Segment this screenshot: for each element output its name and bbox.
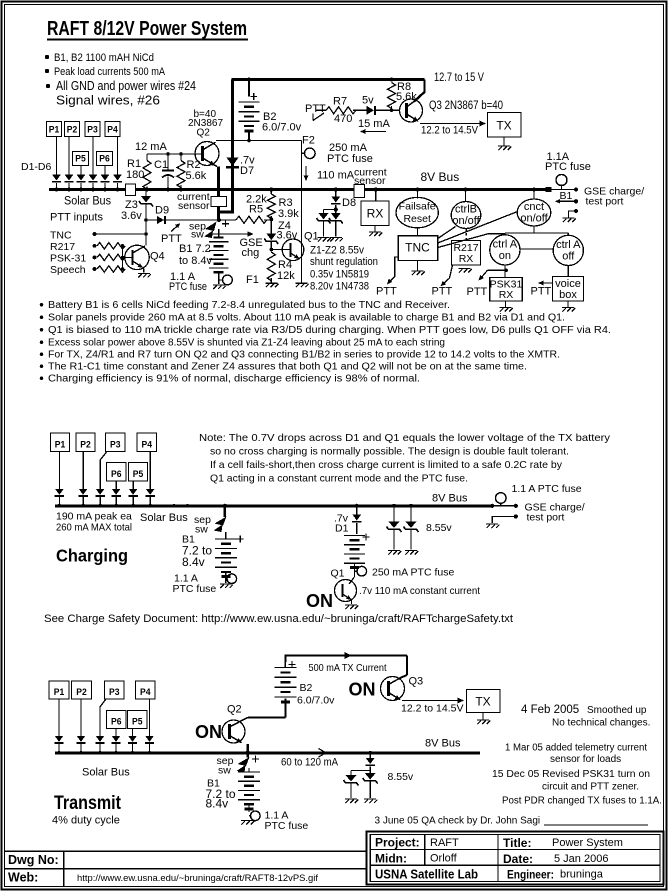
charging wire P4 bbox=[149, 452, 151, 489]
svg-text:Midn:: Midn: bbox=[375, 852, 407, 866]
circle ctrl A on bbox=[490, 235, 520, 265]
svg-text:P5: P5 bbox=[133, 469, 144, 480]
svg-text:Q3 2N3867 b=40: Q3 2N3867 b=40 bbox=[429, 100, 503, 112]
transmit battery B1 bbox=[248, 768, 250, 772]
wire from P3 bbox=[92, 137, 94, 175]
ground under TNC bbox=[417, 261, 419, 271]
ground under Q1 bbox=[296, 283, 309, 287]
svg-text:4% duty cycle: 4% duty cycle bbox=[52, 815, 120, 827]
svg-text:All GND and power wires #24: All GND and power wires #24 bbox=[56, 79, 196, 93]
svg-text:If a cell fails-short,then cro: If a cell fails-short,then cross charge … bbox=[210, 459, 563, 471]
svg-text:P5: P5 bbox=[75, 154, 86, 165]
transistor Q1 (top) bbox=[271, 249, 290, 251]
charging zener string left bbox=[392, 504, 396, 508]
transmit fuse 1.1A bbox=[249, 815, 251, 817]
label GSE chg arrow bbox=[212, 233, 251, 235]
svg-text:bruninga: bruninga bbox=[560, 869, 604, 881]
circle ctrl A off bbox=[553, 235, 583, 265]
svg-text:1.1 A PTC fuse: 1.1 A PTC fuse bbox=[512, 483, 582, 495]
svg-text:3.9k: 3.9k bbox=[278, 208, 299, 220]
transmit zener string left bbox=[351, 770, 370, 772]
ellipse Failsafe Reset bbox=[416, 188, 420, 192]
charging diode 5 bbox=[129, 489, 138, 495]
svg-text:P3: P3 bbox=[87, 125, 98, 136]
charging diode 1 bbox=[55, 489, 64, 495]
wire B2- to F2 bbox=[216, 140, 302, 142]
svg-text:D9: D9 bbox=[155, 205, 169, 217]
svg-text:on/off: on/off bbox=[452, 215, 480, 227]
ground under PSK31 RX bbox=[505, 301, 507, 307]
transistor Q4 bbox=[125, 245, 149, 269]
title block right table bbox=[367, 832, 664, 885]
wire Q3 emitter to TX bbox=[420, 123, 484, 125]
svg-text:The R1-C1 time constant and Ze: The R1-C1 time constant and Zener Z4 ass… bbox=[48, 362, 527, 373]
wire from P4 bbox=[117, 137, 119, 175]
svg-text:8.20v 1N4738: 8.20v 1N4738 bbox=[310, 281, 369, 293]
svg-text:TNC: TNC bbox=[405, 241, 430, 255]
ground under RX bbox=[374, 226, 376, 232]
svg-text:PTC fuse: PTC fuse bbox=[173, 583, 217, 595]
svg-text:D1-D6: D1-D6 bbox=[21, 161, 52, 173]
svg-text:Orloff: Orloff bbox=[430, 853, 458, 865]
transmit wire P3 dogleg bbox=[100, 699, 106, 736]
svg-text:Charging: Charging bbox=[56, 546, 128, 566]
svg-text:shunt regulation: shunt regulation bbox=[310, 256, 378, 268]
svg-text:PSK-31: PSK-31 bbox=[50, 253, 86, 265]
transistor Q2 bbox=[195, 142, 219, 166]
wire from P1 bbox=[56, 137, 58, 175]
charging connector P3 bbox=[106, 433, 126, 452]
svg-text:8V Bus: 8V Bus bbox=[432, 493, 468, 505]
svg-text:PTT inputs: PTT inputs bbox=[50, 212, 103, 224]
svg-text:http://www.ew.usna.edu/~brunin: http://www.ew.usna.edu/~bruninga/craft/R… bbox=[77, 873, 319, 883]
box RX bbox=[374, 188, 378, 192]
svg-text:to 8.4v: to 8.4v bbox=[179, 255, 213, 267]
box PSK31 RX bbox=[504, 265, 506, 278]
fan wire TNC to ctrlB bbox=[438, 227, 456, 239]
svg-text:For TX, Z4/R1 and R7 turn ON: For TX, Z4/R1 and R7 turn ON Q2 and Q3 c… bbox=[48, 350, 560, 361]
zener string Z1-Z2 left bbox=[334, 208, 338, 212]
zener Z3 bbox=[145, 191, 147, 196]
charging diode 4 bbox=[112, 489, 121, 495]
svg-text:R5: R5 bbox=[249, 204, 263, 216]
charging solar bus bbox=[55, 504, 493, 507]
svg-text:Engineer:: Engineer: bbox=[507, 868, 554, 882]
svg-text:test port: test port bbox=[586, 196, 624, 208]
resistor R3 bbox=[269, 188, 273, 192]
svg-text:Q1 acting in a constant curre: Q1 acting in a constant current mode and… bbox=[210, 473, 468, 485]
svg-text:chg: chg bbox=[242, 247, 260, 259]
ground under voice box bbox=[567, 301, 569, 307]
svg-text:Date:: Date: bbox=[503, 852, 533, 866]
connector P4 bbox=[105, 122, 120, 137]
svg-text:Note: The 0.7V drops across D: Note: The 0.7V drops across D1 and Q1 eq… bbox=[199, 432, 611, 444]
svg-text:Solar Bus: Solar Bus bbox=[64, 196, 111, 208]
transmit diode 3 bbox=[96, 736, 105, 742]
ground under charging Q1 bbox=[345, 605, 358, 609]
resistor R4 bbox=[269, 248, 273, 252]
svg-text:15 Dec 05 Revised PSK31 turn o: 15 Dec 05 Revised PSK31 turn on bbox=[492, 769, 650, 780]
svg-text:0.35v 1N5819: 0.35v 1N5819 bbox=[310, 269, 369, 281]
bus arrow chevron bbox=[319, 749, 327, 758]
resistor R7 bbox=[326, 107, 356, 114]
transmit connector P1 bbox=[49, 681, 69, 699]
fan wire TNC to ctrlA on bbox=[438, 234, 505, 248]
svg-text:ctrlB: ctrlB bbox=[455, 204, 477, 216]
svg-text:Transmit: Transmit bbox=[54, 793, 122, 814]
PTT arrow TNC bbox=[389, 257, 399, 283]
svg-text:6.0/7.0v: 6.0/7.0v bbox=[262, 122, 302, 134]
svg-text:B1: B1 bbox=[560, 190, 573, 202]
capacitor C1 bbox=[167, 154, 169, 170]
charging connector P4 bbox=[137, 433, 157, 452]
transmit wire P6 bbox=[115, 729, 117, 736]
wire cnct to ctrlA circles bbox=[533, 226, 535, 233]
diode D4 bbox=[113, 175, 122, 181]
wire node above R1 C1 R2 bbox=[147, 153, 203, 155]
connector P3 bbox=[85, 122, 100, 137]
charging battery B1 bbox=[225, 532, 227, 539]
zener Z4 bbox=[270, 219, 272, 233]
wire from P2 bbox=[68, 137, 70, 175]
svg-text:ON: ON bbox=[195, 722, 222, 742]
box TX (transmit) bbox=[467, 690, 501, 713]
svg-text:ctrl A: ctrl A bbox=[556, 239, 581, 251]
wire R7 to 5v diode bbox=[353, 109, 367, 111]
svg-text:F2: F2 bbox=[302, 135, 315, 147]
svg-text:test port: test port bbox=[527, 512, 565, 524]
svg-text:8V Bus: 8V Bus bbox=[421, 170, 460, 184]
transmit connector P5 bbox=[128, 711, 148, 729]
svg-text:Signal wires, #26: Signal wires, #26 bbox=[56, 94, 160, 108]
transmit connector P3 bbox=[105, 681, 125, 699]
transmit B2 top wire to Q3 bbox=[285, 656, 407, 663]
wire D7 to sensor node bbox=[219, 211, 234, 214]
svg-text:Q2: Q2 bbox=[197, 128, 211, 139]
charging fuse 1.1A bbox=[226, 578, 227, 580]
svg-text:Power System: Power System bbox=[552, 837, 623, 849]
svg-text:12 mA: 12 mA bbox=[135, 141, 167, 153]
svg-text:P5: P5 bbox=[132, 717, 143, 728]
svg-text:P4: P4 bbox=[142, 440, 153, 451]
svg-text:sw: sw bbox=[218, 765, 231, 777]
bullet note peak load bbox=[45, 69, 49, 73]
svg-text:4 Feb 2005: 4 Feb 2005 bbox=[521, 704, 579, 716]
connector P5 bbox=[73, 152, 89, 166]
svg-text:Q1: Q1 bbox=[304, 231, 319, 243]
svg-text:Solar panels provide 260 mA at: Solar panels provide 260 mA at 8.5 volts… bbox=[48, 313, 565, 324]
charging switch sep sw bbox=[223, 504, 227, 508]
svg-text:RAFT 8/12V Power System: RAFT 8/12V Power System bbox=[47, 18, 247, 40]
wire Q3 to TX (transmit) bbox=[402, 700, 462, 702]
charging wire P6 bbox=[115, 481, 117, 489]
svg-text:sensor for loads: sensor for loads bbox=[550, 754, 621, 765]
svg-text:Smoothed up: Smoothed up bbox=[587, 705, 647, 716]
svg-text:on: on bbox=[499, 250, 511, 262]
svg-text:P4: P4 bbox=[107, 125, 118, 136]
svg-text:No technical changes.: No technical changes. bbox=[552, 718, 650, 729]
transmit connector P2 bbox=[72, 681, 92, 699]
dashed wire ctrlB to R217 RX bbox=[465, 229, 467, 241]
svg-text:circuit and PTT zener.: circuit and PTT zener. bbox=[542, 782, 639, 793]
svg-text:Failsafe: Failsafe bbox=[399, 201, 436, 213]
svg-text:sensor: sensor bbox=[178, 200, 210, 212]
bus end square bbox=[546, 187, 552, 192]
svg-text:D1: D1 bbox=[335, 523, 349, 535]
svg-text:PTT: PTT bbox=[376, 286, 397, 298]
svg-text:P1: P1 bbox=[55, 440, 66, 451]
transmit diode 2 bbox=[77, 736, 86, 742]
svg-text:Dwg No:: Dwg No: bbox=[8, 853, 59, 867]
fan wire TNC to cnct bbox=[438, 212, 518, 244]
ground GSE test port bbox=[574, 209, 578, 213]
svg-text:sw: sw bbox=[195, 524, 208, 536]
svg-text:5 Jan 2006: 5 Jan 2006 bbox=[554, 853, 608, 865]
box TNC bbox=[398, 236, 438, 261]
charging diode D1 bbox=[355, 504, 359, 508]
node R3 Z4 R5 bbox=[269, 217, 273, 221]
transmit diode 6 bbox=[145, 736, 154, 742]
transmit diode 4 bbox=[112, 736, 121, 742]
svg-text:Z1-Z2 8.55v: Z1-Z2 8.55v bbox=[310, 245, 364, 257]
title block left table bbox=[5, 850, 367, 852]
svg-text:Q1: Q1 bbox=[331, 568, 345, 580]
PTT arrow PSK31 bbox=[488, 269, 507, 271]
svg-text:8.55v: 8.55v bbox=[426, 522, 452, 534]
svg-text:PTC fuse: PTC fuse bbox=[545, 161, 591, 173]
transmit connector P4 bbox=[136, 681, 156, 699]
svg-text:See Charge Safety Document:: See Charge Safety Document: http://www.e… bbox=[44, 613, 513, 625]
top 12V rail bbox=[231, 78, 424, 81]
ellipse ctrlB on/off bbox=[464, 188, 468, 192]
svg-text:PTC fuse: PTC fuse bbox=[169, 281, 207, 293]
svg-text:Web:: Web: bbox=[8, 871, 38, 885]
ground under Q4 bbox=[138, 274, 151, 278]
wire from P5 bbox=[80, 166, 82, 175]
svg-text:TX: TX bbox=[496, 119, 511, 133]
svg-text:Speech: Speech bbox=[50, 264, 86, 276]
svg-text:8.4v: 8.4v bbox=[182, 555, 205, 569]
svg-text:box: box bbox=[559, 289, 577, 301]
svg-text:RAFT: RAFT bbox=[430, 837, 459, 849]
ground under TX bbox=[503, 137, 505, 146]
charging diode 6 bbox=[146, 489, 155, 495]
battery B2 bbox=[248, 80, 250, 97]
charging wire P1 bbox=[58, 452, 60, 489]
svg-text:ON: ON bbox=[306, 591, 333, 611]
svg-text:110 mA: 110 mA bbox=[317, 170, 355, 182]
transistor Q2 emitter path / wire bbox=[217, 167, 220, 197]
transmit diode 5 bbox=[128, 736, 137, 742]
svg-text:PTT: PTT bbox=[467, 286, 488, 298]
svg-text:D7: D7 bbox=[240, 165, 254, 177]
ground under TX (transmit) bbox=[482, 713, 484, 720]
svg-text:P3: P3 bbox=[110, 440, 121, 451]
charging zener string right bbox=[409, 504, 413, 508]
diode D8 bbox=[334, 188, 338, 192]
svg-text:Peak load currents 500 mA: Peak load currents 500 mA bbox=[54, 66, 166, 78]
svg-text:B1 7.2: B1 7.2 bbox=[179, 243, 211, 255]
svg-text:RX: RX bbox=[459, 253, 474, 265]
svg-text:12k: 12k bbox=[277, 270, 295, 282]
transmit wire P1 bbox=[58, 699, 60, 736]
svg-text:PTT: PTT bbox=[432, 286, 453, 298]
GSE feed line bbox=[552, 189, 577, 191]
svg-text:cnct: cnct bbox=[524, 201, 544, 213]
ground charging GSE bbox=[486, 524, 499, 528]
svg-text:B2: B2 bbox=[300, 682, 313, 694]
svg-text:PTC fuse: PTC fuse bbox=[265, 820, 309, 832]
fuse F1 and ground bbox=[218, 277, 220, 285]
diode D1 bbox=[52, 175, 61, 181]
svg-text:12.2 to 14.5V: 12.2 to 14.5V bbox=[421, 125, 479, 137]
svg-text:P3: P3 bbox=[109, 687, 120, 698]
svg-text:C1: C1 bbox=[154, 159, 168, 171]
box TX bbox=[488, 113, 522, 138]
battery B1 (top) bbox=[218, 229, 220, 238]
PTT arrow R217 bbox=[442, 265, 453, 285]
connector P1 bbox=[47, 122, 62, 137]
svg-text:Reset: Reset bbox=[403, 213, 431, 225]
svg-text:P2: P2 bbox=[76, 687, 87, 698]
description bullets bbox=[40, 303, 44, 307]
resistor R2 bbox=[180, 154, 182, 161]
svg-text:8.4v: 8.4v bbox=[206, 797, 229, 811]
svg-text:TX: TX bbox=[475, 695, 490, 709]
svg-text:12.7 to 15 V: 12.7 to 15 V bbox=[434, 72, 484, 84]
svg-text:B1, B2 1100 mAH NiCd: B1, B2 1100 mAH NiCd bbox=[54, 52, 154, 64]
svg-text:P2: P2 bbox=[67, 125, 78, 136]
svg-text:ctrl A: ctrl A bbox=[493, 239, 518, 251]
resistor R5 bbox=[236, 216, 267, 223]
wire Q4 base join bbox=[122, 246, 124, 269]
resistor R8 bbox=[388, 83, 396, 109]
ground under R217 RX bbox=[459, 269, 472, 273]
svg-text:260 mA MAX total: 260 mA MAX total bbox=[56, 522, 132, 534]
diode D3 bbox=[89, 175, 98, 181]
svg-text:Excess solar power above 8.55V: Excess solar power above 8.55V is shunte… bbox=[48, 338, 445, 349]
svg-text:F1: F1 bbox=[246, 274, 259, 286]
svg-text:500 mA TX Current: 500 mA TX Current bbox=[309, 662, 387, 674]
wire from P6 bbox=[104, 166, 106, 175]
svg-text:12.2 to 14.5V: 12.2 to 14.5V bbox=[401, 703, 463, 715]
wire between ctrl A on and off bbox=[520, 248, 553, 250]
transmit solar bus bbox=[55, 751, 480, 754]
svg-text:ON: ON bbox=[349, 680, 376, 700]
svg-text:TNC: TNC bbox=[50, 230, 72, 242]
charging diode 2 bbox=[79, 489, 88, 495]
transmit zener string right bbox=[368, 751, 372, 755]
svg-text:5.6k: 5.6k bbox=[186, 170, 207, 182]
svg-text:P4: P4 bbox=[140, 687, 151, 698]
bullet note B1 B2 bbox=[45, 55, 49, 59]
svg-text:RX: RX bbox=[367, 207, 384, 221]
connector P6 bbox=[97, 152, 113, 166]
box R217 RX bbox=[452, 241, 481, 266]
diode 5v bbox=[367, 106, 375, 115]
svg-text:off: off bbox=[562, 251, 575, 263]
svg-text:sw: sw bbox=[191, 229, 204, 241]
wire to Q3 base bbox=[375, 109, 400, 111]
svg-text:3.6v: 3.6v bbox=[121, 210, 142, 222]
charging bus end / GSE bbox=[490, 504, 494, 508]
svg-text:Charging efficiency is 91% of: Charging efficiency is 91% of normal, di… bbox=[48, 374, 420, 385]
svg-text:1 Mar 05 added telemetry curr: 1 Mar 05 added telemetry current bbox=[505, 743, 647, 754]
svg-text:60 to 120 mA: 60 to 120 mA bbox=[281, 757, 339, 769]
svg-text:P2: P2 bbox=[80, 440, 91, 451]
svg-text:on/off: on/off bbox=[520, 213, 548, 225]
charging wire P5 bbox=[132, 481, 134, 489]
charging fuse 250mA bbox=[354, 570, 357, 572]
resistor R1 bbox=[146, 154, 148, 161]
charging connector P6 bbox=[107, 463, 127, 482]
svg-text:P1: P1 bbox=[54, 687, 65, 698]
diode D7 bbox=[231, 80, 234, 214]
svg-text:6.0/7.0v: 6.0/7.0v bbox=[297, 695, 335, 707]
svg-text:so no cross charging is normal: so no cross charging is normally possibl… bbox=[210, 446, 569, 458]
svg-text:PTT: PTT bbox=[531, 286, 552, 298]
diode D9 line bbox=[146, 219, 236, 221]
transmit diode 1 bbox=[55, 736, 64, 742]
connector P2 bbox=[65, 122, 80, 137]
charging connector P2 bbox=[76, 433, 95, 452]
transmit connector P6 bbox=[107, 711, 127, 729]
svg-text:250 mA PTC fuse: 250 mA PTC fuse bbox=[372, 567, 454, 579]
transmit wire P4 bbox=[149, 699, 151, 736]
svg-text:RX: RX bbox=[499, 289, 514, 301]
svg-text:3 June 05 QA check by Dr. Jo: 3 June 05 QA check by Dr. John Sagi bbox=[375, 816, 541, 827]
svg-text:USNA Satellite Lab: USNA Satellite Lab bbox=[375, 868, 478, 882]
svg-text:R7: R7 bbox=[333, 96, 347, 108]
ground under R4 bbox=[265, 283, 278, 287]
svg-text:15 mA: 15 mA bbox=[358, 118, 390, 130]
svg-text:5v: 5v bbox=[362, 95, 374, 107]
svg-text:Title:: Title: bbox=[503, 836, 531, 850]
svg-text:P6: P6 bbox=[111, 717, 122, 728]
svg-text:P1: P1 bbox=[49, 125, 60, 136]
svg-text:.7v 110 mA constant current: .7v 110 mA constant current bbox=[359, 585, 480, 597]
diode D6 bbox=[101, 175, 110, 181]
svg-text:P6: P6 bbox=[111, 469, 122, 480]
svg-text:Battery B1 is 6 cells NiCd fee: Battery B1 is 6 cells NiCd feeding 7.2-8… bbox=[48, 300, 450, 311]
transmit wire P2 bbox=[80, 699, 82, 736]
svg-text:Q2: Q2 bbox=[227, 704, 242, 716]
current sensor box (charge path) bbox=[211, 197, 227, 207]
solar / 8V bus (top) bbox=[49, 188, 547, 191]
ellipse cnct on/off bbox=[532, 188, 536, 192]
diode D5 bbox=[77, 175, 86, 181]
transistor Q3 bbox=[400, 99, 423, 122]
svg-text:8V Bus: 8V Bus bbox=[425, 738, 461, 750]
svg-text:P6: P6 bbox=[99, 154, 110, 165]
charging wire P2 bbox=[82, 452, 84, 489]
svg-text:8.55v: 8.55v bbox=[388, 771, 414, 783]
PTT arrow voice box bbox=[540, 282, 552, 284]
svg-text:D8: D8 bbox=[342, 197, 356, 209]
transmit battery B2 bbox=[284, 662, 286, 668]
svg-text:Solar Bus: Solar Bus bbox=[82, 767, 130, 779]
charging connector P1 bbox=[51, 433, 70, 452]
box voice box bbox=[567, 266, 569, 277]
svg-text:Q1 is biased to 110 mA trickle: Q1 is biased to 110 mA trickle charge ra… bbox=[48, 325, 611, 336]
svg-text:470: 470 bbox=[334, 113, 352, 125]
connector box on bus bbox=[126, 184, 136, 196]
svg-text:Solar Bus: Solar Bus bbox=[140, 512, 188, 524]
charging battery B2 bbox=[363, 536, 370, 538]
charging wire P3 dogleg bbox=[100, 452, 107, 489]
zener string Z1-Z2 right bbox=[335, 210, 337, 214]
svg-text:R217: R217 bbox=[50, 241, 75, 253]
